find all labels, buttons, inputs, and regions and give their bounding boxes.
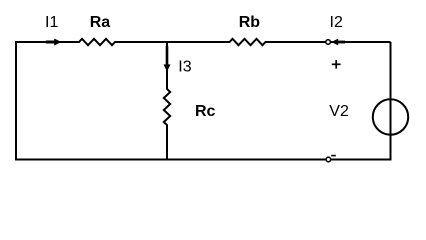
svg-text:I3: I3 (178, 58, 191, 75)
svg-text:I2: I2 (330, 14, 343, 31)
svg-text:I1: I1 (45, 14, 58, 31)
svg-text:Ra: Ra (90, 14, 111, 31)
svg-text:V2: V2 (329, 103, 349, 120)
svg-text:Rc: Rc (195, 103, 216, 120)
svg-text:Rb: Rb (239, 14, 261, 31)
